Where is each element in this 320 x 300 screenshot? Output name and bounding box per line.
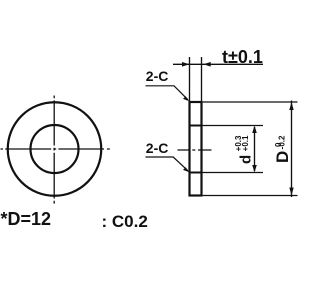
svg-text:t±0.1: t±0.1	[222, 47, 263, 67]
dimension line t right arrowhead	[203, 62, 211, 67]
label d +0.3/+0.1 (rotated)	[234, 135, 254, 164]
outer circle (front view, outer diameter D)	[8, 102, 102, 196]
dimension line d with arrows	[254, 127, 256, 171]
extension line bottom for outer diameter D	[203, 195, 298, 197]
extension line top for outer diameter D	[203, 101, 298, 103]
hole top edge line in side view	[190, 125, 202, 127]
svg-text:d: d	[237, 155, 254, 164]
hole bottom edge line in side view	[190, 172, 202, 174]
dimension line t left stub with arrow	[173, 63, 263, 65]
centerline of side view	[178, 149, 212, 151]
inner circle (front view, hole diameter d)	[31, 125, 79, 173]
svg-text:-0.2: -0.2	[278, 135, 287, 149]
svg-text:2-C: 2-C	[146, 140, 169, 156]
extension line bottom for hole dimension d	[202, 172, 264, 174]
dimension line D with arrows	[291, 101, 293, 198]
leader arrowhead upper 2-C	[183, 96, 189, 101]
leader line upper 2-C	[146, 86, 189, 100]
extension line left for thickness t	[189, 57, 191, 101]
svg-text:+0.1: +0.1	[241, 135, 250, 151]
extension line right for thickness t	[201, 57, 203, 101]
extension line top for hole dimension d	[202, 125, 264, 127]
label D 0/-0.2 (rotated)	[273, 135, 292, 163]
svg-text:D: D	[273, 151, 292, 163]
svg-text:: C0.2: : C0.2	[102, 212, 148, 231]
svg-text:2-C: 2-C	[146, 68, 169, 84]
vertical centerline of front view	[53, 96, 55, 204]
horizontal centerline of front view	[1, 148, 110, 150]
leader arrowhead lower 2-C	[183, 167, 189, 172]
svg-text:*D=12: *D=12	[1, 209, 52, 229]
side view washer cross-section rectangle	[190, 102, 202, 196]
leader line lower 2-C	[146, 157, 189, 171]
